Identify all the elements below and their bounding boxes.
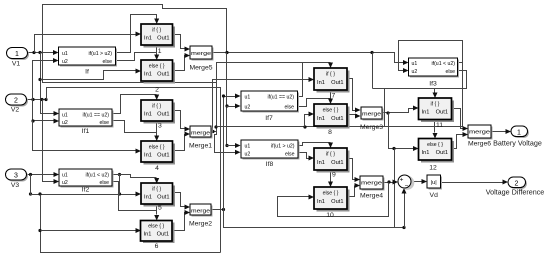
inport 1 (V1)	[7, 48, 30, 68]
wire action4 Out1 to Merge1 in2	[173, 132, 191, 151]
wire branch to action 8 In1	[305, 112, 315, 127]
svg-text:if(u1 < u2): if(u1 < u2)	[431, 61, 455, 67]
svg-text:merge: merge	[469, 130, 490, 136]
wire V1 branch to If1 u1 and action 2 In1	[38, 53, 141, 117]
svg-text:Merge2: Merge2	[189, 221, 212, 228]
svg-text:u2: u2	[62, 120, 68, 126]
svg-text:Merge1: Merge1	[189, 143, 212, 150]
action subsystem 7 (if)	[314, 68, 350, 100]
svg-text:else: else	[285, 152, 295, 158]
wire abs to outport 2	[441, 180, 509, 185]
wire action11 Out1 to Merge6 in1	[452, 109, 469, 132]
wire If if-output to action 1 control	[116, 15, 160, 53]
outport 2 (Voltage Difference)	[486, 177, 545, 197]
wire drop to sum feed line	[394, 149, 396, 228]
svg-text:V1: V1	[12, 61, 21, 68]
wire Merge4 feedback to action 10 In1	[278, 183, 389, 217]
if block If2	[59, 169, 114, 194]
wire Merge5 output to If3 u1	[213, 51, 409, 65]
wire action8 Out1 to Merge3 in2	[347, 114, 361, 119]
svg-text:u1: u1	[245, 95, 251, 101]
svg-text:Out1: Out1	[157, 195, 169, 201]
svg-text:u2: u2	[62, 59, 68, 65]
svg-text:u1: u1	[62, 173, 68, 179]
action subsystem 4 (else)	[141, 141, 175, 172]
svg-text:Out1: Out1	[331, 80, 343, 86]
svg-text:6: 6	[155, 243, 159, 250]
wire Merge2 output to If7 u1	[211, 94, 241, 212]
svg-text:merge: merge	[191, 131, 210, 137]
svg-text:1: 1	[517, 130, 521, 137]
wire V3 to If2 u1	[27, 172, 60, 177]
inport 3 (V3)	[6, 169, 29, 189]
wire action3 Out1 to Merge1 in1	[173, 111, 191, 132]
svg-text:u2: u2	[62, 180, 68, 186]
action subsystem 5 (if)	[141, 183, 175, 212]
svg-text:Out1: Out1	[331, 116, 343, 122]
svg-text:1: 1	[15, 51, 19, 58]
svg-text:In1: In1	[144, 36, 152, 42]
merge block Merge4	[360, 176, 385, 200]
svg-text:If3: If3	[429, 81, 437, 88]
wire V2 trunk	[27, 98, 48, 101]
svg-text:u2: u2	[245, 152, 251, 158]
wire If3 else-output to action 11 control	[373, 71, 467, 99]
wire sum to abs	[411, 179, 428, 184]
svg-text:+: +	[400, 177, 404, 184]
svg-text:Merge4: Merge4	[360, 193, 383, 200]
wire action2 Out1 to Merge5 in2	[173, 53, 191, 71]
if block If8	[241, 140, 300, 168]
wire If3 if-output stub	[458, 62, 463, 64]
svg-text:if(u1 == u2): if(u1 == u2)	[82, 113, 109, 119]
svg-text:Out1: Out1	[436, 150, 448, 156]
wire control action5 to action6	[154, 205, 159, 221]
action subsystem 3 (if)	[141, 100, 175, 130]
wire control action11 to action12	[433, 120, 438, 139]
action subsystem 6 (else)	[141, 221, 175, 251]
svg-text:else { }: else { }	[323, 108, 339, 114]
wire Merge1 output loop to If3 u2	[211, 41, 463, 134]
svg-text:In1: In1	[144, 72, 152, 78]
if block If7	[241, 91, 299, 122]
merge block Merge5	[189, 46, 213, 72]
svg-text:merge: merge	[191, 51, 211, 57]
svg-text:if(u1 < u2): if(u1 < u2)	[85, 173, 109, 179]
svg-text:V2: V2	[11, 107, 20, 114]
svg-text:In1: In1	[317, 116, 325, 122]
if block If	[59, 47, 118, 76]
svg-text:If1: If1	[82, 128, 90, 135]
svg-text:u2: u2	[245, 105, 251, 111]
svg-text:if { }: if { }	[152, 104, 161, 110]
wire If1 if-output to action 3 control	[113, 95, 160, 114]
wire If2 else-output junction	[113, 182, 157, 211]
merge block Merge2	[189, 204, 213, 228]
wire If8 else-output to action 9 In1	[299, 153, 315, 161]
svg-text:If2: If2	[82, 187, 90, 194]
action subsystem 9 (if)	[314, 148, 350, 179]
svg-text:2: 2	[515, 181, 519, 188]
wire V1 to If u1	[28, 50, 59, 55]
svg-text:else { }: else { }	[148, 224, 164, 230]
action subsystem 8 (else)	[314, 104, 350, 136]
svg-text:4: 4	[155, 165, 159, 172]
svg-text:Out1: Out1	[157, 153, 169, 159]
wire action5 Out1 to Merge2 in1	[173, 193, 191, 210]
svg-text:3: 3	[158, 123, 162, 130]
svg-text:else { }: else { }	[149, 64, 165, 70]
svg-text:else: else	[99, 120, 109, 126]
svg-text:if(u1 == u2): if(u1 == u2)	[267, 95, 294, 101]
wire If else-output junction	[116, 53, 157, 61]
wire Merge3 output to action 11 In1	[383, 106, 419, 115]
wire V2 to If u2	[33, 58, 59, 100]
action subsystem 11 (if)	[419, 98, 455, 129]
svg-text:if { }: if { }	[431, 102, 440, 108]
svg-text:Out1: Out1	[436, 110, 448, 116]
wire Merge6 to outport 1	[491, 129, 512, 134]
wire If2 if-output to action 5 control	[113, 175, 160, 184]
merge block Merge1	[189, 126, 213, 150]
inport 2 (V2)	[6, 94, 29, 114]
svg-text:u1: u1	[245, 144, 251, 150]
svg-text:V3: V3	[11, 182, 20, 189]
if block If3	[409, 58, 460, 88]
svg-text:7: 7	[332, 93, 336, 100]
action subsystem 1 (if)	[141, 24, 175, 48]
svg-text:u2: u2	[412, 69, 418, 75]
action subsystem 12 (else)	[419, 139, 455, 172]
svg-text:2: 2	[14, 98, 18, 105]
wire V2 to If1 u2 and action 4 In1	[31, 100, 141, 154]
action subsystem 2 (else)	[141, 60, 175, 94]
merge block Merge3	[360, 107, 384, 131]
svg-text:else: else	[102, 59, 112, 65]
svg-text:In1: In1	[317, 199, 325, 205]
merge block Merge6	[468, 125, 493, 148]
wire riser x385 between control line and merge line	[384, 89, 386, 127]
svg-text:If7: If7	[265, 115, 273, 122]
svg-text:if { }: if { }	[326, 152, 335, 158]
svg-text:−: −	[405, 183, 409, 190]
svg-text:Merge5: Merge5	[189, 65, 212, 72]
wire V3 to action 5 In1	[29, 173, 141, 197]
wire V3 down to action 6 In1 and bottom run	[31, 175, 221, 253]
svg-text:8: 8	[328, 129, 332, 136]
svg-text:In1: In1	[144, 153, 152, 159]
wire Merge3 branch to action 12 In1	[389, 113, 419, 152]
LABELS	[158, 48, 162, 55]
wire control action1 to action2	[154, 45, 159, 61]
svg-text:In1: In1	[422, 150, 430, 156]
svg-text:5: 5	[158, 205, 162, 212]
wire control action3 to action4	[154, 121, 159, 142]
wire V2 to If8 u2 long run	[47, 88, 221, 253]
svg-text:else { }: else { }	[149, 145, 165, 151]
wire action9 Out1 to Merge4 in1	[347, 159, 361, 183]
svg-text:else: else	[445, 69, 455, 75]
svg-text:In1: In1	[422, 110, 430, 116]
wire If7 if-output to action 7 control	[298, 63, 334, 97]
svg-text:Out1: Out1	[157, 36, 169, 42]
svg-text:In1: In1	[317, 80, 325, 86]
wire action7 Out1 to Merge3 in1	[347, 79, 361, 113]
wire If1 else-output junction	[113, 121, 157, 133]
if block If1	[59, 109, 114, 135]
svg-text:In1: In1	[144, 195, 152, 201]
svg-text:merge: merge	[362, 112, 381, 118]
wire control action9 to action10	[328, 171, 333, 188]
svg-text:Vd: Vd	[430, 192, 439, 199]
wire action10 Out1 to Merge4 in2	[347, 183, 361, 197]
svg-text:if { }: if { }	[152, 187, 161, 193]
svg-text:Out1: Out1	[157, 232, 169, 238]
svg-text:if { }: if { }	[326, 72, 335, 78]
sum block (subtract)	[398, 175, 414, 190]
svg-text:else: else	[284, 105, 294, 111]
svg-text:Battery Voltage: Battery Voltage	[493, 139, 542, 148]
svg-text:merge: merge	[191, 209, 210, 215]
svg-text:If8: If8	[266, 161, 274, 168]
svg-text:In1: In1	[317, 160, 325, 166]
wire Merge5 junction drop at x372	[372, 53, 374, 89]
svg-text:In1: In1	[144, 232, 152, 238]
svg-text:u1: u1	[62, 51, 68, 57]
svg-text:|u|: |u|	[431, 180, 437, 186]
svg-text:11: 11	[436, 122, 443, 129]
svg-text:Voltage Difference: Voltage Difference	[486, 188, 545, 197]
wire action6 Out1 to Merge2 in2	[173, 210, 191, 231]
svg-text:If: If	[85, 69, 89, 76]
svg-text:1: 1	[158, 48, 162, 55]
svg-text:Out1: Out1	[157, 72, 169, 78]
svg-text:if { }: if { }	[152, 28, 161, 34]
svg-text:u1: u1	[62, 113, 68, 119]
wire control action7 to action8	[328, 91, 333, 105]
abs block Vd	[427, 175, 442, 199]
wire Merge2 branch to sum minus input	[224, 188, 407, 229]
svg-text:if(u1 > u2): if(u1 > u2)	[271, 144, 295, 150]
outport 1 (Battery Voltage)	[493, 126, 542, 148]
svg-text:u1: u1	[412, 61, 418, 67]
svg-text:else { }: else { }	[427, 142, 443, 148]
wire action12 Out1 to Merge6 in2	[452, 132, 469, 149]
wire If8 if-output to action 9 control	[299, 143, 334, 149]
svg-text:3: 3	[14, 173, 18, 180]
svg-text:Out1: Out1	[157, 112, 169, 118]
svg-text:9: 9	[332, 172, 336, 179]
wire Merge4 output to sum	[383, 180, 399, 185]
wire action1 Out1 to Merge5 in1	[173, 35, 191, 52]
svg-text:12: 12	[429, 165, 437, 172]
svg-text:Merge6: Merge6	[468, 141, 491, 148]
svg-text:Merge3: Merge3	[360, 124, 383, 131]
svg-text:Out1: Out1	[331, 160, 343, 166]
wire Merge5 branch to If7 u2	[225, 53, 240, 149]
wire V2 to If2 u2	[43, 100, 60, 185]
svg-text:2: 2	[155, 87, 159, 94]
wire V1 branch to action 1 In1	[35, 32, 142, 53]
svg-text:else { }: else { }	[323, 191, 339, 197]
svg-text:merge: merge	[361, 181, 382, 187]
svg-text:In1: In1	[144, 112, 152, 118]
svg-text:10: 10	[326, 212, 334, 219]
svg-text:Out1: Out1	[331, 199, 343, 205]
action subsystem 10 (else)	[314, 187, 350, 219]
wire top loop from Merge5 junction	[43, 5, 241, 155]
svg-text:else: else	[99, 180, 109, 186]
svg-text:if(u1 > u2): if(u1 > u2)	[88, 51, 112, 57]
wire If7 else-output junction	[298, 99, 331, 107]
